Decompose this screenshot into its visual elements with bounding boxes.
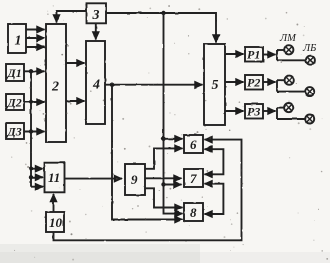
svg-text:8: 8 bbox=[190, 205, 197, 220]
lamp M row2 bbox=[285, 76, 294, 85]
wire block5 to relay P1 bbox=[225, 53, 244, 55]
block 1 bbox=[8, 24, 26, 53]
wire long drop from block4 output to block8 bottom input bbox=[112, 85, 183, 220]
lamp B row2 bbox=[305, 87, 314, 96]
svg-text:9: 9 bbox=[131, 172, 138, 187]
wire block3 right to top of block5 bbox=[106, 13, 217, 43]
junction sensor bus at Д2 bbox=[29, 100, 33, 104]
block 11 bbox=[45, 163, 65, 193]
svg-text:Д1: Д1 bbox=[7, 66, 22, 80]
sensor block Д2 bbox=[6, 94, 24, 110]
lamp B row3 bbox=[305, 115, 314, 124]
wire to lamp B row3 bbox=[277, 118, 305, 120]
sensor block Д3 bbox=[6, 123, 24, 139]
svg-text:1: 1 bbox=[15, 34, 22, 49]
wire block5 to relay P3 bbox=[225, 110, 244, 112]
wire block2 to block4 arrow b bbox=[66, 100, 85, 102]
wire bus branch to block11 input b bbox=[30, 169, 32, 178]
svg-text:7: 7 bbox=[190, 171, 197, 186]
junction on block4 output bbox=[110, 83, 114, 87]
wire P3 to lamp split bbox=[263, 110, 276, 112]
wire sensor bus vertical to block 11 bbox=[30, 71, 32, 168]
wire to lamp B row2 bbox=[277, 91, 305, 93]
wire bottom feedback loop to block6 right input bbox=[54, 140, 242, 241]
svg-text:3: 3 bbox=[92, 8, 100, 23]
wire branch to block7 lower input bbox=[164, 184, 182, 186]
wire feedback block7 to block8 right u-link bbox=[205, 184, 224, 214]
block 2 bbox=[46, 24, 66, 142]
lamp split bar row2 bbox=[276, 80, 278, 91]
wire block4 right to block5 left bbox=[105, 84, 203, 86]
lamp ЛМ row1 bbox=[284, 45, 293, 54]
block 9 bbox=[125, 164, 145, 195]
wire block11 to block9 bbox=[65, 178, 123, 180]
relay P3 bbox=[245, 104, 263, 119]
wire block3 bottom to block4 top bbox=[95, 23, 97, 39]
block 5 bbox=[204, 44, 225, 125]
junction sensor bus at Д3 bbox=[29, 129, 33, 133]
svg-text:2: 2 bbox=[51, 80, 59, 95]
block 6 bbox=[184, 135, 203, 153]
wire to lamp M row3 bbox=[277, 107, 284, 109]
wire block3 left to top of block2 bbox=[57, 11, 87, 23]
svg-text:6: 6 bbox=[190, 137, 197, 152]
junction on block3 right wire bbox=[161, 11, 165, 15]
svg-text:4: 4 bbox=[92, 78, 100, 93]
junction central vertical at block6 branch bbox=[161, 137, 165, 141]
svg-text:5: 5 bbox=[212, 78, 219, 93]
wire central vertical from junction to branches bbox=[164, 13, 183, 214]
svg-text:ЛБ: ЛБ bbox=[302, 43, 316, 54]
block 7 bbox=[184, 169, 203, 187]
wire to lamp ЛБ row1 bbox=[277, 59, 306, 61]
wire block9 middle output to block7 upper input bbox=[145, 177, 182, 179]
wire block1 to block2 arrow b bbox=[26, 37, 45, 39]
sensor block Д1 bbox=[6, 64, 24, 81]
wire to lamp M row2 bbox=[277, 79, 285, 81]
wire P1 to lamp split bbox=[263, 54, 276, 56]
svg-text:Р1: Р1 bbox=[247, 48, 260, 62]
svg-text:Д3: Д3 bbox=[7, 125, 22, 139]
junction central vertical at block7 branch bbox=[161, 182, 165, 186]
lamp split bar row1 bbox=[276, 50, 278, 60]
wire branch to block6 top input bbox=[164, 138, 183, 140]
svg-text:11: 11 bbox=[48, 170, 60, 185]
svg-text:ЛМ: ЛМ bbox=[279, 33, 297, 44]
svg-text:10: 10 bbox=[49, 215, 63, 230]
block 4 bbox=[86, 41, 105, 124]
wire block1 to block2 arrow a bbox=[26, 29, 45, 31]
relay P2 bbox=[245, 75, 263, 90]
wire to lamp ЛМ row1 bbox=[277, 49, 284, 51]
junction sensor bus at Д1 bbox=[29, 69, 33, 73]
wire feedback block6 to block7 right u-link bbox=[205, 149, 224, 174]
lamp split bar row3 bbox=[276, 108, 278, 119]
lamp ЛБ row1 bbox=[306, 56, 315, 65]
block 3 bbox=[87, 3, 107, 23]
relay P1 bbox=[245, 47, 263, 62]
wire block10 to block11 bbox=[53, 194, 55, 212]
svg-text:Д2: Д2 bbox=[7, 96, 22, 110]
wire bus branch to block11 input a bbox=[31, 168, 43, 170]
wire block2 to block4 arrow a bbox=[66, 62, 85, 64]
junction sensor bus at block11 inputs bbox=[29, 167, 33, 171]
block 10 bbox=[46, 212, 64, 232]
wire block5 to relay P2 bbox=[225, 81, 244, 83]
wire P2 to lamp split bbox=[263, 81, 276, 83]
wire block1 to block2 arrow c bbox=[26, 46, 45, 48]
wire block9 bottom output to block8 top input bbox=[145, 188, 183, 207]
block 8 bbox=[184, 203, 203, 221]
wire Д1 to block2 bbox=[24, 70, 45, 72]
wire Д3 to block2 bbox=[24, 131, 45, 133]
wire bus branch to block11 input c bbox=[30, 177, 32, 186]
wire block9 top output to block6 lower input bbox=[145, 148, 183, 168]
svg-text:Р3: Р3 bbox=[247, 105, 260, 119]
lamp M row3 bbox=[284, 103, 293, 112]
svg-text:Р2: Р2 bbox=[247, 76, 260, 90]
wire Д2 to block2 bbox=[24, 101, 45, 103]
